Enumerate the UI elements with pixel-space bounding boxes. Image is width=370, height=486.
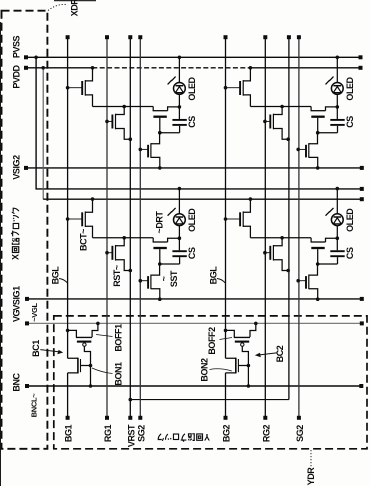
svg-text:VG: VG [12,310,22,323]
wire PVDD row1 [26,67,92,69]
svg-text:~DRT: ~DRT [155,211,165,234]
svg-text:X: X [11,254,21,260]
svg-text:PVDD: PVDD [12,64,22,88]
svg-text:SG2: SG2 [295,425,305,442]
wire BNC [27,385,361,387]
pixel cell row1 col2 [224,56,355,170]
svg-text:PVSS: PVSS [12,35,22,58]
svg-text:XDR: XDR [70,0,80,16]
label Y block kanji (upside down) [158,432,210,442]
wire VSIG2 [26,167,362,169]
svg-text:SST: SST [169,270,179,287]
terminal squares bottom [66,416,301,420]
svg-text:BNCL~: BNCL~ [30,393,39,418]
pixel cell row2 col1 [66,187,197,301]
svg-text:BC2: BC2 [275,345,285,362]
svg-text:VRST: VRST [126,424,136,447]
svg-text:Y: Y [204,432,210,442]
svg-text:BG2: BG2 [222,424,232,442]
svg-text:RG1: RG1 [103,424,113,442]
svg-text:BGL: BGL [209,266,219,285]
arrow BC2 [259,353,278,355]
scan edge artifact left [0,22,2,486]
wire VGL (gray) [27,322,362,324]
terminal squares right [359,55,364,388]
wire RG2 [264,39,266,416]
leader BGL right [217,279,225,284]
leader BGL left [59,279,67,284]
svg-text:~VGL: ~VGL [30,302,39,321]
leader BON1 [92,368,113,374]
svg-text:~: ~ [159,276,169,281]
leader YDR [310,450,312,468]
svg-text:VSIG1: VSIG1 [12,286,22,311]
wire SG2 right [298,39,300,416]
wire VRST link [130,399,289,401]
svg-text:BON2: BON2 [200,358,210,382]
svg-text:BOFF1: BOFF1 [114,324,124,352]
wire VRST [129,39,131,416]
svg-text:YDR: YDR [306,467,316,486]
svg-text:BNC: BNC [12,372,22,391]
svg-text:SG2: SG2 [136,425,146,442]
leader BOFF1 [96,335,113,337]
wire PVSS row2 + feed [36,57,362,189]
wire VSIG1 [27,298,362,300]
svg-text:RST~: RST~ [112,265,122,287]
vertical control lines [68,39,289,416]
Y cell left (BOFF1/BON1) [66,322,100,388]
wire RG1 [106,39,108,416]
svg-text:VSIG2: VSIG2 [12,155,22,180]
label X block kanji [11,208,21,260]
label leaders [40,4,311,467]
wire VRST2 [288,39,290,400]
svg-text:BC1: BC1 [31,340,41,357]
svg-text:BGL: BGL [51,266,61,285]
leader BON2 [210,369,232,371]
block Y (YDR) dashed box [54,316,367,449]
wire BG1 [67,39,69,416]
terminal squares left [24,55,29,388]
wire SG2 left [139,39,141,416]
svg-text:BCT~: BCT~ [79,229,89,251]
leader BOFF2 [220,338,233,340]
block X (XDR) dashed box [2,11,48,449]
arrow BC1 [40,350,59,352]
wire PVSS row1 [26,56,361,58]
pixel cell row1 col1 [66,56,197,170]
wire PVDD row2 + feed [42,68,44,199]
scan edge artifact top [54,0,96,2]
svg-text:BG1: BG1 [64,424,74,442]
svg-text:BON1: BON1 [114,362,124,386]
leader XDR [48,4,67,10]
wire BG2 [225,39,227,416]
svg-text:BOFF2: BOFF2 [207,327,217,355]
Y cell right (BOFF2/BON2) [224,322,258,388]
pixel cell row2 col2 [224,187,355,301]
svg-text:RG2: RG2 [261,424,271,442]
terminal squares top [66,35,301,39]
